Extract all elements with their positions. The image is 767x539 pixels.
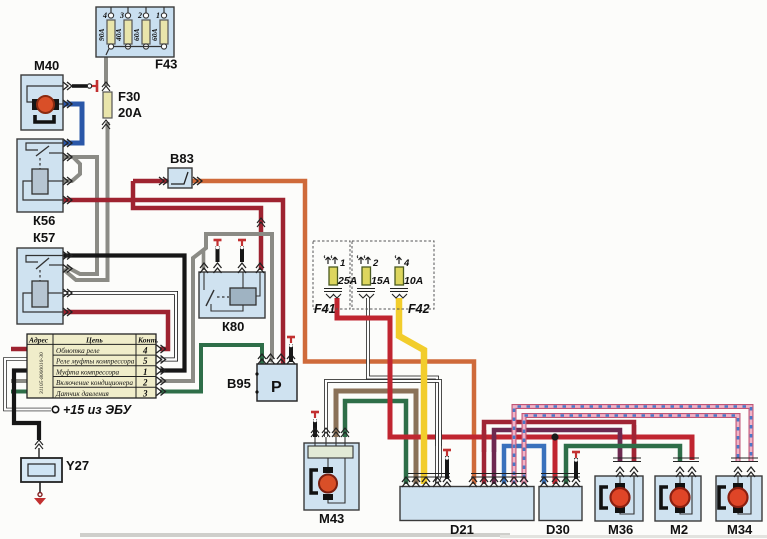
wire: black table row1 to Y27 (14, 371, 39, 441)
svg-text:M40: M40 (34, 58, 59, 73)
K80 pin3 battery stub (240, 246, 244, 262)
svg-text:4: 4 (102, 11, 107, 20)
svg-text:D21: D21 (450, 522, 474, 537)
ECU pin table (27, 334, 166, 398)
D21 battery stub pin (445, 456, 449, 479)
svg-text:+15 из ЭБУ: +15 из ЭБУ (63, 403, 133, 417)
wire: blue D21 to D30 (504, 446, 544, 484)
wire: red F41 fuse1 main to M2 pin2 (337, 298, 692, 460)
wire: dark red D21 to M36 pin2 (484, 422, 634, 484)
svg-text:5: 5 (143, 356, 148, 366)
wire: green D30 to M2 pin1 (566, 446, 680, 484)
fuse F30 (102, 82, 142, 129)
svg-text:M36: M36 (608, 522, 633, 537)
fuse box F43 (96, 7, 177, 72)
svg-text:D30: D30 (546, 522, 570, 537)
connector block D30 (539, 452, 582, 537)
connector block D21 (400, 450, 534, 537)
svg-text:Реле муфты компрессора: Реле муфты компрессора (55, 358, 135, 366)
wire: yellow F42 fuse4 to D21 (399, 298, 424, 484)
svg-text:F41: F41 (314, 302, 336, 316)
wire: vertical overlays (verticals drawn over red main) (482, 430, 487, 452)
wire: red branch to D30 (553, 437, 558, 484)
svg-text:2: 2 (372, 258, 379, 269)
wire: green M43 pin4 to D21 (345, 401, 406, 484)
svg-text:1: 1 (340, 258, 345, 269)
wire: black K57 pin1 to ECU table row1 (63, 256, 185, 371)
svg-text:Датчик давления: Датчик давления (55, 390, 110, 398)
wire break marks on K80 pin4 red (257, 218, 265, 227)
svg-text:Включение кондиционера: Включение кондиционера (56, 379, 133, 387)
wire: dark-red branch B83 down to K80 pin4 (133, 181, 261, 270)
wire: blue M40 to K56 pin1 (63, 104, 82, 143)
svg-text:К57: К57 (33, 230, 55, 245)
wire: gray K56 pin2 loop down to K57 pin2 (inner) (63, 157, 80, 181)
+15 from ECU (52, 403, 132, 417)
svg-text:M34: M34 (727, 522, 753, 537)
svg-text:3: 3 (142, 388, 148, 398)
svg-text:60A: 60A (150, 28, 159, 41)
pressure switch B95 (227, 337, 297, 401)
svg-text:F30: F30 (118, 89, 140, 104)
svg-text:M43: M43 (319, 511, 344, 526)
svg-text:2: 2 (142, 378, 148, 388)
svg-text:40A: 40A (114, 28, 123, 42)
svg-text:90A: 90A (97, 28, 106, 41)
fuse 90A (110, 7, 112, 14)
svg-text:Цепь: Цепь (85, 336, 103, 345)
fuse 60A (163, 7, 165, 14)
relay K57 (17, 230, 72, 324)
relay K80 (199, 218, 265, 334)
svg-text:F43: F43 (155, 57, 177, 72)
svg-text:К80: К80 (222, 319, 244, 334)
wire: white K57 pin3 to table row5 (63, 293, 176, 360)
wire: maroon D21 to M36 pin1 (494, 430, 620, 484)
svg-text:Конт.: Конт. (137, 336, 159, 345)
svg-text:Муфта компрессора: Муфта компрессора (55, 368, 120, 376)
wire: white M43 pin2 to D21 (326, 381, 440, 482)
svg-text:25A: 25A (337, 275, 357, 287)
fuse block F42 (352, 241, 434, 316)
wire: striped pink D21 to M34 pin1 (524, 416, 738, 485)
wire: dark-red K56 pin4 bus to B95 pin3 (63, 200, 283, 364)
wire: dark-red B83 left feed (133, 179, 168, 184)
wire: green stub table row3 left (11, 390, 27, 394)
fan motor M43 (304, 412, 359, 526)
fuse 60A (145, 7, 147, 14)
svg-text:В83: В83 (170, 151, 194, 166)
svg-text:P: P (271, 379, 282, 396)
fan motor M34 (716, 458, 762, 537)
svg-text:Адрес: Адрес (28, 336, 49, 345)
wire: white +15 from ECU to table row5 (5, 359, 51, 410)
fan motor M2 (655, 458, 701, 537)
svg-text:2: 2 (137, 11, 142, 20)
svg-text:Обмотка реле: Обмотка реле (56, 347, 100, 355)
wire: red stub table row4 left (11, 347, 27, 352)
wire: striped pink D21 to M34 pin2 (514, 407, 751, 485)
K80 pin2 battery stub (216, 246, 220, 262)
electric motor M40 (21, 58, 97, 147)
svg-text:20A: 20A (118, 105, 142, 120)
wire: green B95 pin1 to table row3 (160, 345, 262, 392)
svg-text:31105-8000010-30: 31105-8000010-30 (39, 352, 45, 395)
wire: gray table row2 up over K80 to B95 pin2 (160, 234, 272, 381)
svg-text:К56: К56 (33, 213, 55, 228)
relay K56 (17, 139, 72, 228)
fuse block F41 (313, 241, 357, 316)
svg-text:F42: F42 (408, 302, 430, 316)
junction dot (551, 433, 558, 440)
D30 battery stub pin (574, 458, 578, 479)
svg-text:Y27: Y27 (66, 458, 89, 473)
svg-text:60A: 60A (132, 28, 141, 41)
wire: dark-red K57 pin4 to table row4 (63, 312, 168, 349)
svg-text:3: 3 (119, 11, 124, 20)
switch B83 (159, 151, 202, 188)
battery stub on M40 pin1 (72, 84, 87, 88)
svg-text:4: 4 (142, 346, 148, 356)
wire: brown M43 pin3 to D21 (336, 391, 416, 484)
fan motor M36 (595, 458, 643, 537)
svg-text:В95: В95 (227, 376, 251, 391)
wire: orange B83 to D21 (192, 181, 474, 484)
svg-text:15A: 15A (371, 275, 390, 287)
wire: white F42 fuse2 to D21 (368, 298, 437, 484)
svg-text:10A: 10A (404, 275, 423, 287)
M43 pin1 battery stub (313, 419, 317, 437)
B95 pin4 battery stub (289, 344, 293, 362)
svg-text:1: 1 (156, 11, 160, 20)
svg-text:1: 1 (143, 367, 148, 377)
wire: white crossing overlay at red main (437, 430, 440, 446)
compressor clutch Y27 (21, 440, 89, 505)
fuse 40A (127, 7, 129, 14)
wire: gray stub table row2 left (11, 379, 27, 383)
wire: gray F43 to F30 to K57 pin2 (outer) (104, 55, 108, 86)
svg-text:M2: M2 (670, 522, 688, 537)
